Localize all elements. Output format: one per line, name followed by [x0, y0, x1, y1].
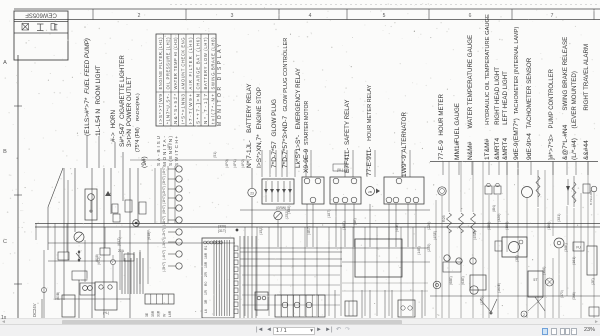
svg-text:(2E): (2E) — [591, 278, 595, 285]
svg-text:BATTERY LOW (LH7): BATTERY LOW (LH7) — [203, 37, 208, 90]
svg-text:23: 23 — [250, 192, 254, 196]
svg-text:(4SE): (4SE) — [433, 231, 437, 240]
svg-text:WATER TEMP HI (LH3): WATER TEMP HI (LH3) — [173, 37, 178, 90]
svg-text:*1N7*U,S+-: *1N7*U,S+- — [165, 94, 170, 124]
svg-text:15R: 15R — [204, 261, 208, 268]
svg-text:20A: 20A — [118, 249, 125, 253]
svg-text:L6R: L6R — [168, 310, 172, 317]
svg-text:2: 2 — [138, 13, 141, 19]
svg-text:MM1#: MM1# — [454, 141, 461, 160]
svg-text:B: B — [3, 149, 7, 155]
svg-text:MONITOR DISPLAY: MONITOR DISPLAY — [217, 43, 223, 126]
svg-text:(-1H7): (-1H7) — [162, 216, 166, 226]
svg-text:WATER TEMPERATURE GAUGE: WATER TEMPERATURE GAUGE — [467, 35, 474, 129]
svg-text:(1E): (1E) — [353, 218, 357, 225]
svg-text:FUEL GAUGE: FUEL GAUGE — [454, 103, 461, 143]
svg-text:PUMP CONTROLLER: PUMP CONTROLLER — [549, 68, 555, 128]
svg-text:(4SE): (4SE) — [473, 231, 477, 240]
svg-text:OIL PRESSURE (LH2): OIL PRESSURE (LH2) — [165, 37, 170, 90]
svg-text:(51): (51) — [213, 152, 217, 158]
svg-text:AMOUNT CHECK ENG: AMOUNT CHECK ENG — [180, 38, 185, 90]
svg-text:S*+7-]>N: S*+7-]>N — [195, 94, 200, 124]
svg-text:TACHOMETER (INTERNAL LAMP): TACHOMETER (INTERNAL LAMP) — [514, 27, 520, 115]
svg-text:A: A — [3, 60, 7, 66]
svg-text:ENGINE STOP: ENGINE STOP — [256, 87, 263, 129]
svg-text:&@7*L-#N4: &@7*L-#N4 — [562, 124, 569, 160]
svg-text:(612): (612) — [97, 257, 101, 265]
svg-text:(+L): (+L) — [103, 311, 109, 315]
svg-text:(1H7): (1H7) — [162, 195, 166, 204]
svg-text:3E: 3E — [145, 312, 149, 317]
svg-text:(36E): (36E) — [564, 243, 568, 252]
svg-text:1T&M#: 1T&M# — [484, 138, 491, 160]
svg-text:SA-BISU: SA-BISU — [156, 136, 161, 166]
svg-text:(8N): (8N) — [492, 205, 496, 212]
svg-text:N*,7-1JL-: N*,7-1JL- — [246, 140, 253, 168]
svg-text:(68E): (68E) — [449, 276, 453, 285]
svg-text:(E1LS>#*>7*: (E1LS>#*>7* — [84, 97, 91, 136]
svg-text:(152): (152) — [259, 227, 263, 235]
svg-text:&MRT4: &MRT4 — [494, 137, 501, 160]
svg-text:2B: 2B — [368, 190, 372, 194]
svg-text:X9-9E-9: X9-9E-9 — [303, 148, 310, 173]
svg-text:(618): (618) — [147, 232, 151, 240]
svg-text:5: 5 — [383, 13, 386, 19]
svg-text:5T: 5T — [533, 278, 538, 282]
svg-text:R1: R1 — [204, 246, 208, 250]
svg-text:(161): (161) — [572, 257, 576, 265]
svg-text:(4P0): (4P0) — [225, 159, 229, 168]
svg-text:3R: 3R — [204, 299, 208, 304]
svg-text:CHARGE BAT (LH6): CHARGE BAT (LH6) — [195, 37, 200, 90]
svg-text:(3H7): (3H7) — [162, 176, 166, 185]
svg-text:I7-7(W9+: I7-7(W9+ — [188, 94, 193, 124]
svg-text:(187): (187) — [327, 210, 331, 218]
svg-text:(160): (160) — [505, 222, 509, 230]
svg-text:SAFETY RELAY: SAFETY RELAY — [344, 100, 351, 146]
svg-text:ROOM LIGHT: ROOM LIGHT — [95, 65, 102, 104]
svg-text:HOUR METER RELAY: HOUR METER RELAY — [367, 84, 373, 140]
svg-text:(-5H7): (-5H7) — [162, 262, 166, 272]
svg-text:FU: FU — [576, 246, 581, 250]
svg-text:L6: L6 — [204, 309, 208, 313]
svg-text:7*D-7*57: 7*D-7*57 — [271, 141, 278, 168]
svg-text:(270): (270) — [427, 244, 431, 252]
svg-text:RADIO(FM.): RADIO(FM.) — [135, 93, 141, 121]
svg-text:t>l(7*-N+: t>l(7*-N+ — [210, 94, 215, 124]
svg-text:]#*>7*3>: ]#*>7*3> — [548, 134, 555, 160]
svg-text:30R: 30R — [157, 310, 161, 317]
svg-text:(2H7): (2H7) — [162, 186, 166, 195]
svg-text:9dE-9t>4: 9dE-9t>4 — [526, 133, 533, 160]
svg-text:(160E): (160E) — [497, 283, 501, 293]
svg-text:(LEVER MOUNTED): (LEVER MOUNTED) — [571, 71, 578, 128]
svg-text:(3E): (3E) — [515, 255, 519, 262]
svg-text:&&#44: &&#44 — [583, 140, 590, 160]
svg-text:(61Z): (61Z) — [117, 237, 121, 246]
svg-text:(14E): (14E) — [342, 221, 346, 230]
svg-text:AIR FILTER (LH5): AIR FILTER (LH5) — [188, 37, 193, 90]
svg-text:1L-L54 N: 1L-L54 N — [95, 109, 102, 136]
svg-text:(226): (226) — [427, 222, 431, 230]
svg-text:GLOW PLUG: GLOW PLUG — [271, 99, 278, 137]
svg-text:FUEL FEED PUMP): FUEL FEED PUMP) — [84, 38, 91, 94]
svg-text:(75*4 (FM): (75*4 (FM) — [135, 127, 141, 152]
svg-text:2'R: 2'R — [204, 271, 208, 277]
svg-text:(370): (370) — [560, 290, 564, 298]
svg-text:(252): (252) — [285, 211, 289, 219]
svg-text:(14E): (14E) — [417, 246, 421, 255]
svg-text:DC24V: DC24V — [32, 303, 37, 317]
svg-text:3: 3 — [231, 13, 234, 19]
svg-text:C: C — [3, 239, 7, 245]
svg-text:STARTER MOTOR: STARTER MOTOR — [304, 101, 310, 146]
svg-text:BATTERY RELAY: BATTERY RELAY — [246, 84, 253, 133]
svg-text:2: 2 — [523, 313, 525, 317]
svg-text:S#*-547: S#*-547 — [119, 123, 126, 147]
svg-text:HYDRAULIC OIL TEMPERATURE GAUG: HYDRAULIC OIL TEMPERATURE GAUGE — [485, 14, 491, 125]
svg-text:SWITCH+: SWITCH+ — [174, 136, 179, 166]
svg-text:RIGHT HEAD LIGHT: RIGHT HEAD LIGHT — [494, 67, 501, 125]
svg-text:I>S*>7(W9: I>S*>7(W9 — [158, 94, 163, 124]
svg-text:W: W — [162, 313, 166, 317]
svg-text:R26: R26 — [442, 215, 446, 222]
svg-text:(4P2): (4P2) — [241, 159, 245, 168]
svg-text:7*D-7*57*3>ND-7: 7*D-7*57*3>ND-7 — [282, 115, 289, 168]
svg-text:(380): (380) — [487, 222, 491, 230]
svg-text:(4P1): (4P1) — [233, 159, 237, 168]
svg-text:ALTERNATOR: ALTERNATOR — [401, 112, 408, 153]
svg-text:4: 4 — [309, 13, 312, 19]
svg-text:(31T): (31T) — [218, 229, 226, 233]
svg-text:(GRW): (GRW) — [276, 206, 286, 210]
svg-text:CIGARETTE LIGHTER: CIGARETTE LIGHTER — [119, 55, 126, 119]
svg-text:35R: 35R — [151, 310, 155, 317]
svg-text:R0: R0 — [204, 282, 208, 286]
svg-text:77-E-9: 77-E-9 — [438, 140, 445, 160]
svg-text:HOUR METER: HOUR METER — [438, 93, 445, 135]
svg-text:(L/*-#4): (L/*-#4) — [571, 138, 578, 160]
svg-text:GLOW PLUG CONTROLLER: GLOW PLUG CONTROLLER — [283, 38, 289, 112]
svg-text:9dE-9(EM77*): 9dE-9(EM77*) — [513, 118, 520, 160]
svg-text:(63E): (63E) — [461, 276, 465, 285]
svg-text:6: 6 — [469, 13, 472, 19]
svg-text:EMERGENCY RELAY: EMERGENCY RELAY — [295, 68, 302, 129]
svg-text:HORN: HORN — [110, 110, 117, 128]
svg-text:(40E): (40E) — [395, 223, 399, 232]
svg-text:(4H7): (4H7) — [162, 166, 166, 175]
svg-text:(166): (166) — [547, 222, 551, 230]
svg-text:CEW605SF: CEW605SF — [25, 12, 57, 18]
svg-text:(5L): (5L) — [337, 168, 343, 172]
svg-text:&MRT4: &MRT4 — [502, 137, 509, 160]
svg-text:N*,7-1]7: N*,7-1]7 — [203, 94, 208, 124]
svg-text:(366): (366) — [572, 292, 576, 300]
svg-text:B.YELLOW: B.YELLOW — [589, 190, 593, 205]
svg-text:RIGHT TRAVEL ALARM: RIGHT TRAVEL ALARM — [583, 44, 590, 111]
svg-text:(9#): (9#) — [141, 156, 148, 168]
svg-text:I*S*>1NN3: I*S*>1NN3 — [180, 94, 185, 124]
svg-text:1'R: 1'R — [204, 289, 208, 295]
svg-text:(-2H7): (-2H7) — [162, 228, 166, 238]
svg-text:(4B7): (4B7) — [307, 226, 311, 235]
svg-text:(381): (381) — [557, 214, 561, 222]
svg-text:TACHOMETER SENSOR: TACHOMETER SENSOR — [526, 57, 533, 128]
svg-text:Lk*S*1>S*-: Lk*S*1>S*- — [295, 135, 302, 168]
svg-text:16R: 16R — [204, 252, 208, 259]
svg-text:#->: #-> — [110, 132, 117, 142]
svg-text:SWING BRAKE (LH8): SWING BRAKE (LH8) — [210, 37, 215, 90]
svg-text:(-4H7): (-4H7) — [162, 250, 166, 260]
svg-text:ENGINE FILTER (LH1): ENGINE FILTER (LH1) — [158, 37, 163, 90]
svg-text:LEFT HEAD LIGHT: LEFT HEAD LIGHT — [502, 71, 509, 125]
svg-text:7: 7 — [551, 13, 554, 19]
svg-text:(166): (166) — [542, 267, 546, 275]
svg-text:(270): (270) — [480, 297, 484, 305]
svg-text:3>t>N: 3>t>N — [126, 129, 133, 147]
svg-text:(4P): (4P) — [167, 143, 171, 150]
svg-text:(320): (320) — [497, 214, 501, 222]
svg-text:(0H7): (0H7) — [162, 205, 166, 214]
svg-text:(320): (320) — [218, 225, 226, 229]
